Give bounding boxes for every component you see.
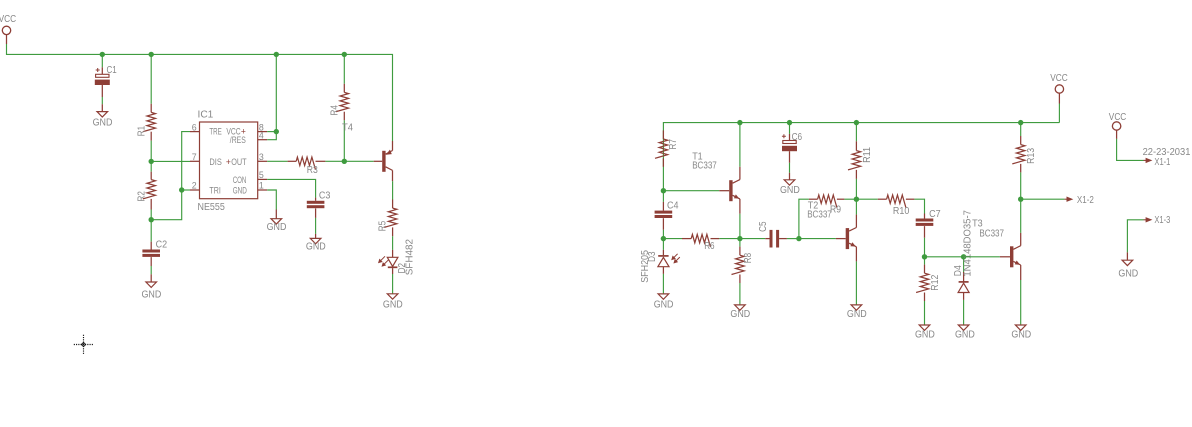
svg-text:5: 5 [259, 170, 264, 180]
pin 5 stub [258, 178, 268, 180]
resistor R2 [143, 180, 156, 199]
resistor R7 [655, 139, 668, 158]
wire node to D3 [662, 239, 664, 250]
wire C7node to D4 node [925, 256, 964, 258]
R1 top lead [150, 104, 152, 113]
resistor R6 [691, 234, 710, 247]
svg-text:R6: R6 [704, 241, 714, 252]
VCC pin lead [6, 35, 8, 44]
svg-text:GND: GND [306, 242, 326, 253]
wire VCC to X1-1 [1117, 139, 1144, 161]
node junction rail-R4 [342, 52, 347, 57]
wire T1 emitter down [739, 214, 741, 239]
photodiode D3 [658, 256, 669, 267]
T4 emitter lead [392, 141, 394, 151]
wire rail to T1 collector [739, 123, 741, 167]
wire C5 to base node [787, 238, 799, 240]
R4 bottom lead [343, 112, 345, 121]
svg-text:T4: T4 [342, 123, 354, 134]
wire C4node to R6 [663, 238, 682, 240]
D3 incident light arrows [671, 254, 680, 264]
node junction rail-R1 [149, 52, 154, 57]
svg-text:X1-1: X1-1 [1154, 157, 1170, 168]
C1 gnd lead [101, 104, 103, 111]
svg-text:6: 6 [192, 122, 197, 132]
svg-text:R8: R8 [743, 253, 754, 263]
svg-text:DIS: DIS [209, 157, 221, 167]
R1 bottom lead [150, 132, 152, 141]
C6 top lead [789, 134, 791, 141]
svg-text:BC337: BC337 [692, 160, 717, 171]
C5 left lead [765, 238, 769, 240]
C3 gnd lead [315, 234, 317, 239]
capacitor C1 [95, 74, 110, 85]
wire C7 to node [924, 238, 926, 257]
transistor T4 [382, 150, 392, 172]
svg-text:GND: GND [267, 222, 287, 233]
svg-text:GND: GND [142, 290, 162, 301]
wire R4 to base node [343, 120, 345, 161]
R2 bottom lead [150, 199, 152, 210]
svg-text:IC1: IC1 [198, 109, 214, 120]
svg-text:R11: R11 [862, 147, 873, 163]
diode D4 [958, 282, 969, 293]
svg-text:C5: C5 [758, 222, 769, 232]
supply VCC symbol (mid) [1055, 85, 1063, 93]
wire R7node to C4 [662, 191, 664, 202]
C2 gnd lead [150, 274, 152, 282]
node junction rail-555supply [274, 52, 279, 57]
VCC mid pin lead [1058, 93, 1060, 103]
C6 bottom lead [789, 151, 791, 163]
wire R6 to emitter node [719, 238, 740, 240]
resistor R10 [887, 195, 906, 208]
transistor T1 [729, 180, 740, 202]
wire node to T2 collector [855, 199, 857, 214]
wire D2 to gnd [392, 274, 394, 294]
svg-text:SFH482: SFH482 [405, 239, 416, 275]
origin crosshair marker [74, 335, 93, 354]
supply VCC symbol (left) [2, 26, 10, 34]
svg-text:3: 3 [259, 152, 264, 162]
wire C3 to gnd [315, 218, 317, 234]
resistor R3 [296, 157, 315, 170]
R10 right lead [906, 198, 915, 200]
svg-text:R10: R10 [893, 206, 910, 217]
wire base node to T2 [799, 238, 836, 240]
node rail-C6 [787, 120, 792, 125]
wire T4 to R5 [392, 181, 394, 199]
D2 anode lead [392, 250, 394, 257]
C4 bottom lead [662, 218, 664, 230]
svg-text:X1-2: X1-2 [1077, 195, 1094, 206]
svg-text:VCC: VCC [1050, 73, 1068, 84]
R4 top lead [343, 84, 345, 93]
R8 top lead [739, 247, 741, 256]
C1 top lead [101, 67, 103, 74]
T2 collector lead [855, 215, 857, 228]
resistor R11 [848, 151, 861, 170]
svg-text:R1: R1 [136, 126, 147, 136]
svg-text:C4: C4 [667, 200, 679, 211]
pin 1 stub [258, 189, 268, 191]
ground below C1 [97, 112, 108, 117]
wire R11 to node [855, 179, 857, 199]
svg-text:TRI: TRI [209, 185, 220, 195]
D2 cathode lead [392, 268, 394, 274]
C2 top lead [150, 242, 152, 250]
svg-text:GND: GND [93, 117, 113, 128]
C4 top lead [662, 202, 664, 211]
pin 7 stub [190, 160, 200, 162]
R10 left lead [878, 198, 887, 200]
wire TRI node to C2 [150, 220, 152, 242]
node C7 junction [922, 254, 927, 259]
X1-3 gnd lead [1126, 252, 1128, 260]
node junction rail-C1 [100, 52, 105, 57]
capacitor C6 [782, 141, 797, 152]
R7 bottom lead [662, 158, 664, 167]
LED D2 [387, 257, 398, 267]
wire node to C5 [740, 238, 765, 240]
svg-text:BC337: BC337 [807, 210, 832, 221]
T3 collector lead [1020, 233, 1022, 246]
R6 left lead [682, 238, 691, 240]
wire base node to T4 [344, 160, 373, 162]
wire R9 to collector node [844, 198, 856, 200]
wire VCC drop right [1058, 104, 1060, 123]
node base junction T4 [342, 159, 347, 164]
ground below T2 [851, 305, 862, 310]
C5 right lead [779, 238, 787, 240]
resistor R5 [384, 208, 397, 227]
svg-text:1: 1 [259, 181, 264, 191]
R2 top lead [150, 172, 152, 180]
supply VCC symbol (right) [1112, 122, 1120, 130]
svg-text:GND: GND [1118, 268, 1138, 279]
wire pin5 to C3 [267, 179, 315, 197]
wire rail to C6 [789, 123, 791, 134]
R7 top lead [662, 130, 664, 139]
node rail-T1 collector [737, 120, 742, 125]
wire out node to T3 collector [1020, 199, 1022, 233]
resistor R4 [336, 92, 349, 111]
R12 top lead [924, 265, 926, 274]
svg-text:SFH205: SFH205 [640, 250, 651, 283]
R3 left lead [288, 160, 297, 162]
op-amp IC1 NE555 body [200, 122, 258, 199]
ground below C3 [310, 238, 321, 243]
node rail-R11 [854, 120, 859, 125]
wire R13 to out node [1020, 172, 1022, 199]
R3 right lead [316, 160, 326, 162]
wire R10 to C7 [914, 199, 924, 213]
ground below X1-3 [1122, 260, 1133, 265]
pin 3 stub [258, 160, 268, 162]
svg-text:CON: CON [233, 175, 247, 185]
D3 cathode lead [662, 250, 664, 255]
wire supply drop [267, 54, 276, 139]
ground below pin1 [271, 219, 282, 224]
resistor R9 [818, 195, 837, 208]
wire R3 to base node [325, 160, 344, 162]
svg-text:GND: GND [383, 299, 403, 310]
svg-text:GND: GND [847, 309, 867, 320]
resistor R13 [1012, 145, 1025, 164]
R9 right lead [837, 198, 845, 200]
resistor R8 [732, 255, 745, 274]
T1 base lead [719, 190, 729, 192]
wire node to R10 [856, 198, 877, 200]
svg-text:GND: GND [730, 309, 750, 320]
connector pin X1-1 arrow [1144, 158, 1153, 163]
svg-text:R4: R4 [329, 105, 340, 116]
VCC right pin lead [1116, 130, 1118, 139]
ground below C2 [146, 282, 157, 287]
R9 left lead [809, 198, 818, 200]
wire node to R12 [924, 257, 926, 265]
wire R5 to D2 [392, 236, 394, 250]
wire rail to R13 [1020, 123, 1022, 136]
svg-text:7: 7 [192, 152, 197, 162]
wire node to D4 [963, 257, 965, 276]
svg-text:2: 2 [192, 181, 197, 191]
svg-text:4: 4 [259, 130, 264, 140]
svg-text:R2: R2 [136, 191, 147, 201]
capacitor C4 [655, 211, 673, 218]
node D4 junction [961, 254, 966, 259]
wire T3 emitter to gnd [1020, 280, 1022, 325]
svg-text:R12: R12 [930, 275, 941, 291]
ground below R8 [735, 305, 746, 310]
ground below C6 [784, 180, 795, 185]
wire node to R8 [739, 239, 741, 247]
svg-text:GND: GND [1011, 329, 1031, 340]
T3 emitter lead [1020, 265, 1022, 280]
wire D3 to gnd [662, 274, 664, 294]
R13 top lead [1020, 136, 1022, 145]
wire D4 to gnd [963, 300, 965, 325]
wire C6 to gnd [789, 163, 791, 173]
T4 base lead [374, 160, 383, 162]
svg-text:GND: GND [654, 299, 674, 310]
node pin8 junction [274, 129, 279, 134]
svg-text:R5: R5 [378, 221, 389, 231]
svg-text:VCC: VCC [0, 14, 16, 25]
D2 emission arrows [378, 256, 389, 267]
pin 6 stub [190, 131, 200, 133]
C1 bottom lead [101, 85, 103, 97]
capacitor C3 [307, 201, 325, 208]
wire pin2 tap [182, 189, 190, 191]
wire TRI tie to TRE [151, 132, 190, 220]
wire X1-3 to gnd [1127, 220, 1143, 253]
transistor T2 [846, 228, 857, 250]
ground below D4 [958, 325, 969, 330]
svg-text:R7: R7 [668, 139, 679, 149]
R11 bottom lead [855, 170, 857, 179]
wire top rail right [663, 123, 1059, 191]
T3 base lead [1000, 256, 1010, 258]
wire R1 to DIS node [150, 141, 152, 162]
T1 collector lead [739, 167, 741, 180]
wire out node to X1-2 [1021, 198, 1065, 200]
ground below D2 [387, 294, 398, 299]
connector pin X1-2 arrow [1064, 197, 1073, 202]
node DIS junction [149, 159, 154, 164]
wire rail to R4 [343, 54, 345, 83]
node emitter junction [737, 236, 742, 241]
wire pin8 to supply [267, 131, 276, 133]
transistor T3 [1010, 246, 1021, 268]
svg-text:BC337: BC337 [979, 229, 1004, 240]
svg-text:NE555: NE555 [198, 202, 225, 213]
wire C1 to GND [101, 97, 103, 104]
node rail-R13 [1018, 120, 1023, 125]
svg-text:GND: GND [780, 185, 800, 196]
svg-text:C7: C7 [929, 209, 941, 220]
T2 base lead [836, 238, 846, 240]
D4 cathode lead [963, 272, 965, 282]
svg-text:R3: R3 [307, 165, 318, 176]
wire rail to R1 [150, 54, 152, 103]
C2 bottom lead [150, 257, 152, 266]
node pin2 junction [179, 187, 184, 192]
node T1 base junction [661, 188, 666, 193]
svg-text:R13: R13 [1026, 148, 1037, 164]
svg-text:/RES: /RES [230, 135, 246, 145]
svg-text:OUT: OUT [231, 157, 247, 167]
capacitor C5 [770, 230, 780, 248]
C3 top lead [315, 198, 317, 201]
D3 anode lead [662, 267, 664, 274]
C3 bottom lead [315, 208, 317, 218]
capacitor C7 [916, 219, 934, 226]
R11 top lead [855, 141, 857, 150]
C6 gnd lead [789, 173, 791, 180]
wire top rail left [7, 44, 393, 141]
wire T2 emitter to gnd [855, 261, 857, 305]
wire R8 to gnd [739, 283, 741, 305]
pin1 gnd lead [275, 210, 277, 219]
R6 right lead [711, 238, 720, 240]
node T2 collector junction [854, 197, 859, 202]
T4 collector lead [392, 170, 394, 181]
ground below T3 [1015, 325, 1026, 330]
wire pin3 to R3 [267, 160, 287, 162]
R5 top lead [392, 200, 394, 209]
pin 8 stub [258, 131, 268, 133]
R12 bottom lead [924, 293, 926, 302]
T2 emitter lead [855, 247, 857, 262]
svg-text:C2: C2 [156, 240, 168, 251]
R5 bottom lead [392, 227, 394, 236]
wire rail to R11 [855, 123, 857, 142]
R8 bottom lead [739, 275, 741, 284]
wire C2 to GND [150, 266, 152, 274]
svg-text:C3: C3 [319, 190, 331, 201]
wire pin1 to gnd [267, 190, 276, 210]
svg-text:X1-3: X1-3 [1154, 215, 1170, 226]
wire R12 to gnd [924, 301, 926, 325]
capacitor C2 [142, 250, 160, 257]
svg-text:GND: GND [955, 329, 975, 340]
C7 top lead [924, 214, 926, 219]
svg-text:TRE: TRE [209, 127, 221, 137]
wire DIS node to R2 [150, 161, 152, 171]
resistor R1 [143, 112, 156, 131]
ground below D3 [658, 294, 669, 299]
R13 bottom lead [1020, 164, 1022, 173]
node C4 junction [661, 236, 666, 241]
pin 2 stub [190, 189, 200, 191]
wire R2 to TRI node [150, 210, 152, 220]
node TRI junction [149, 217, 154, 222]
pin 4 stub [258, 139, 268, 141]
T1 emitter lead [739, 199, 741, 214]
node T2 base junction [796, 236, 801, 241]
wire C4 to node [662, 230, 664, 239]
connector pin X1-3 arrow [1144, 217, 1153, 222]
resistor R12 [916, 273, 929, 292]
wire DIS to pin7 [151, 160, 190, 162]
svg-text:GND: GND [233, 185, 247, 195]
ground below R12 [919, 325, 930, 330]
C1 plus mark [96, 68, 100, 72]
wire rail to C1 [101, 54, 103, 67]
wire node to T3 base [964, 256, 1000, 258]
svg-text:GND: GND [915, 329, 935, 340]
C6 plus mark [782, 134, 786, 138]
D4 anode lead [963, 293, 965, 300]
wire base node to T1 [663, 190, 719, 192]
C7 bottom lead [924, 226, 926, 238]
wire base node up to R9 [799, 199, 809, 238]
svg-text:VCC: VCC [1109, 112, 1127, 123]
node X1-2 junction [1018, 197, 1023, 202]
svg-text:+: + [226, 157, 231, 167]
